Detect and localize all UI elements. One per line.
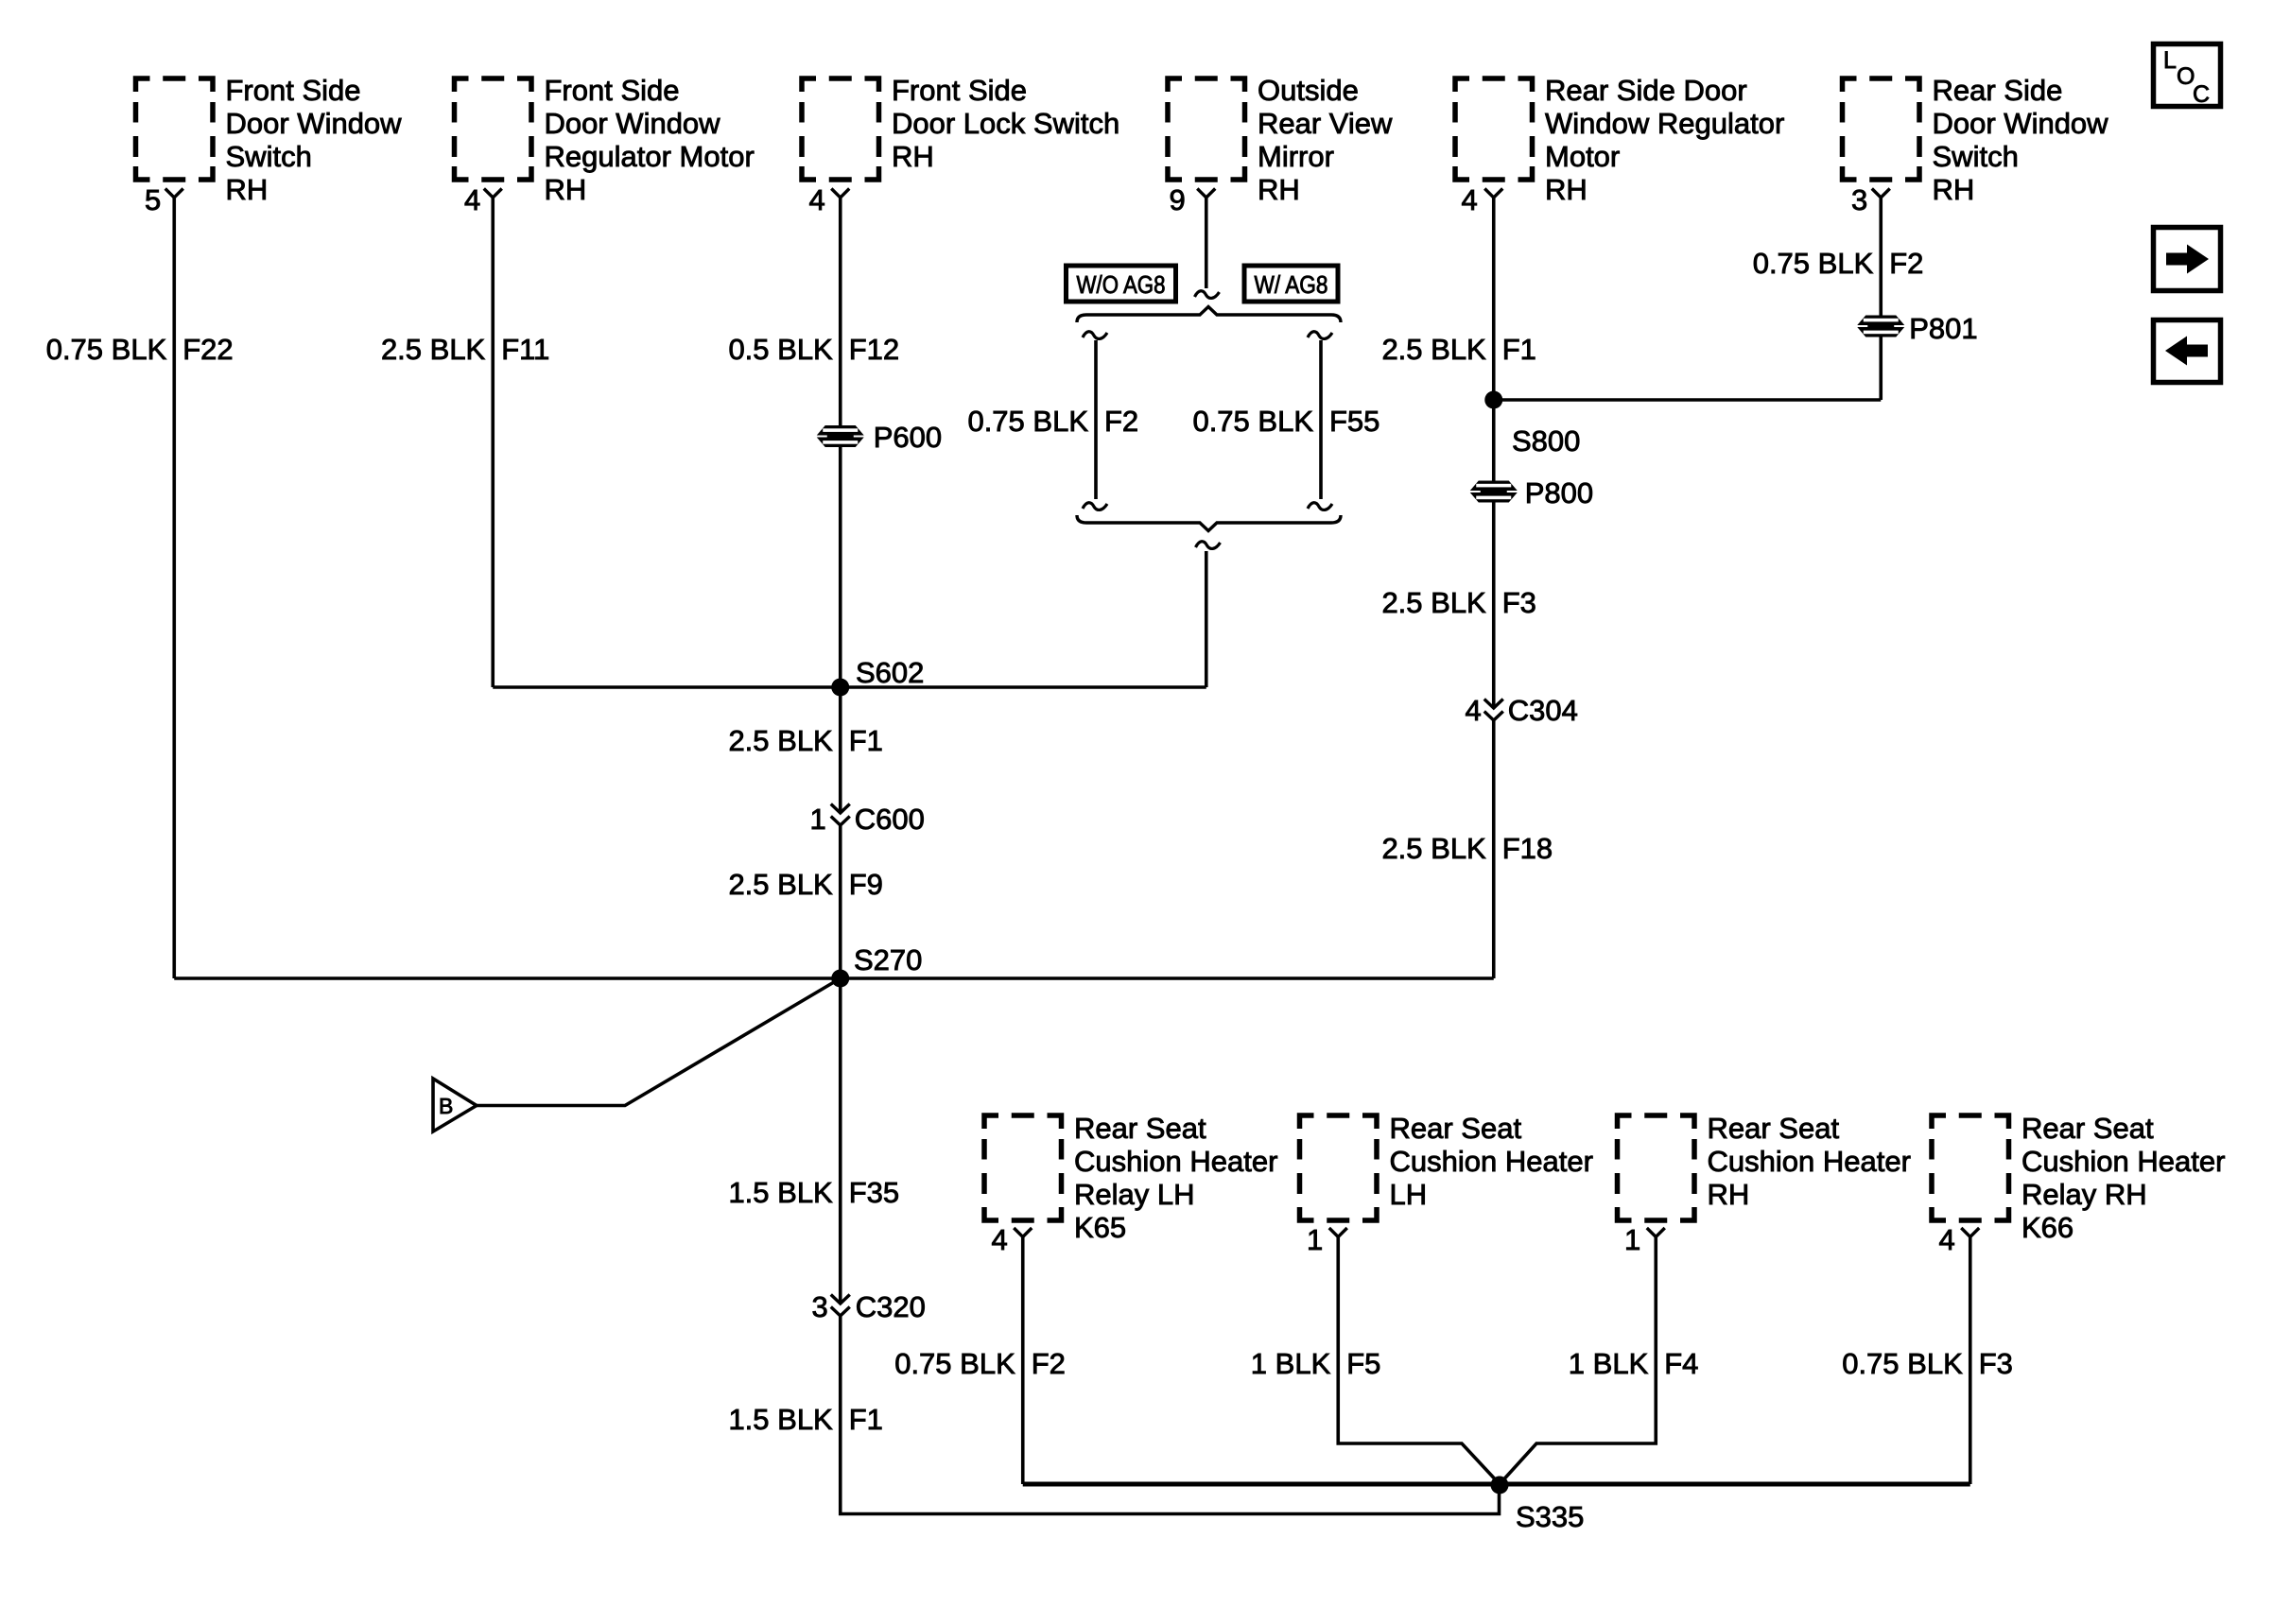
svg-text:RH: RH bbox=[1708, 1178, 1750, 1211]
svg-text:2.5 BLK: 2.5 BLK bbox=[1381, 586, 1486, 619]
svg-text:RH: RH bbox=[1545, 173, 1588, 206]
svg-text:K66: K66 bbox=[2021, 1211, 2073, 1244]
svg-text:Rear Seat: Rear Seat bbox=[2021, 1112, 2154, 1145]
svg-text:RH: RH bbox=[545, 173, 587, 206]
svg-text:1.5 BLK: 1.5 BLK bbox=[728, 1403, 833, 1436]
svg-text:RH: RH bbox=[226, 173, 269, 206]
svg-text:Rear View: Rear View bbox=[1258, 107, 1393, 140]
svg-text:Front Side: Front Side bbox=[226, 74, 361, 107]
svg-text:Cushion Heater: Cushion Heater bbox=[1390, 1145, 1593, 1178]
svg-text:0.75 BLK: 0.75 BLK bbox=[967, 405, 1088, 438]
svg-text:P600: P600 bbox=[874, 421, 942, 454]
svg-text:Door Window: Door Window bbox=[545, 107, 721, 140]
svg-text:0.75 BLK: 0.75 BLK bbox=[1753, 247, 1874, 280]
svg-text:0.5 BLK: 0.5 BLK bbox=[728, 333, 833, 366]
svg-text:0.75 BLK: 0.75 BLK bbox=[894, 1347, 1015, 1380]
svg-text:4: 4 bbox=[992, 1223, 1008, 1256]
svg-text:LH: LH bbox=[1390, 1178, 1428, 1211]
svg-text:P801: P801 bbox=[1909, 312, 1977, 345]
svg-text:Door Window: Door Window bbox=[226, 107, 403, 140]
svg-text:1: 1 bbox=[810, 803, 826, 836]
svg-text:Door Lock Switch: Door Lock Switch bbox=[892, 107, 1119, 140]
svg-text:Regulator Motor: Regulator Motor bbox=[545, 140, 755, 173]
svg-text:S335: S335 bbox=[1516, 1500, 1584, 1533]
svg-text:L: L bbox=[2163, 47, 2177, 74]
svg-text:Rear Seat: Rear Seat bbox=[1708, 1112, 1840, 1145]
svg-text:2.5 BLK: 2.5 BLK bbox=[728, 724, 833, 757]
svg-text:Relay RH: Relay RH bbox=[2021, 1178, 2147, 1211]
svg-text:4: 4 bbox=[1939, 1223, 1955, 1256]
svg-text:2.5 BLK: 2.5 BLK bbox=[728, 868, 833, 901]
svg-text:Outside: Outside bbox=[1258, 74, 1359, 107]
svg-text:4: 4 bbox=[809, 183, 825, 216]
svg-text:Relay LH: Relay LH bbox=[1074, 1178, 1195, 1211]
svg-text:Rear Seat: Rear Seat bbox=[1074, 1112, 1206, 1145]
svg-text:RH: RH bbox=[892, 140, 934, 173]
svg-text:Rear Seat: Rear Seat bbox=[1390, 1112, 1522, 1145]
svg-text:3: 3 bbox=[812, 1290, 828, 1323]
svg-text:1: 1 bbox=[1624, 1223, 1640, 1256]
svg-text:Door Window: Door Window bbox=[1933, 107, 2109, 140]
svg-text:F2: F2 bbox=[1104, 405, 1138, 438]
svg-text:Front Side: Front Side bbox=[545, 74, 680, 107]
svg-text:F3: F3 bbox=[1502, 586, 1536, 619]
svg-text:F35: F35 bbox=[849, 1176, 899, 1209]
svg-text:Cushion Heater: Cushion Heater bbox=[1074, 1145, 1277, 1178]
svg-text:2.5 BLK: 2.5 BLK bbox=[1381, 832, 1486, 865]
svg-text:RH: RH bbox=[1933, 173, 1975, 206]
svg-text:Rear Side Door: Rear Side Door bbox=[1545, 74, 1747, 107]
svg-text:Motor: Motor bbox=[1545, 140, 1620, 173]
svg-text:F4: F4 bbox=[1664, 1347, 1698, 1380]
svg-text:F55: F55 bbox=[1329, 405, 1379, 438]
svg-text:0.75 BLK: 0.75 BLK bbox=[1842, 1347, 1963, 1380]
svg-text:F1: F1 bbox=[849, 724, 883, 757]
svg-text:Window Regulator: Window Regulator bbox=[1545, 107, 1784, 140]
svg-text:F5: F5 bbox=[1346, 1347, 1380, 1380]
svg-text:B: B bbox=[439, 1094, 453, 1118]
svg-text:RH: RH bbox=[1258, 173, 1300, 206]
svg-text:F18: F18 bbox=[1502, 832, 1553, 865]
svg-text:4: 4 bbox=[1466, 694, 1482, 727]
svg-text:2.5 BLK: 2.5 BLK bbox=[381, 333, 486, 366]
svg-text:Front Side: Front Side bbox=[892, 74, 1027, 107]
svg-text:S270: S270 bbox=[854, 943, 922, 976]
svg-text:Cushion Heater: Cushion Heater bbox=[2021, 1145, 2225, 1178]
svg-text:0.75 BLK: 0.75 BLK bbox=[46, 333, 167, 366]
svg-text:S800: S800 bbox=[1512, 424, 1580, 458]
svg-text:1 BLK: 1 BLK bbox=[1569, 1347, 1649, 1380]
svg-text:3: 3 bbox=[1851, 183, 1867, 216]
svg-text:F22: F22 bbox=[182, 333, 233, 366]
svg-text:F11: F11 bbox=[501, 333, 549, 366]
svg-text:K65: K65 bbox=[1074, 1211, 1126, 1244]
svg-text:0.75 BLK: 0.75 BLK bbox=[1192, 405, 1313, 438]
svg-text:S602: S602 bbox=[856, 656, 924, 689]
svg-text:C304: C304 bbox=[1508, 694, 1578, 727]
svg-text:1 BLK: 1 BLK bbox=[1251, 1347, 1331, 1380]
svg-text:1.5 BLK: 1.5 BLK bbox=[728, 1176, 833, 1209]
svg-text:4: 4 bbox=[1462, 183, 1478, 216]
svg-text:F3: F3 bbox=[1979, 1347, 2013, 1380]
svg-text:F2: F2 bbox=[1032, 1347, 1066, 1380]
svg-text:Mirror: Mirror bbox=[1258, 140, 1334, 173]
svg-text:2.5 BLK: 2.5 BLK bbox=[1381, 333, 1486, 366]
svg-text:F1: F1 bbox=[1502, 333, 1536, 366]
svg-text:5: 5 bbox=[145, 183, 161, 216]
svg-text:Switch: Switch bbox=[1933, 140, 2019, 173]
svg-text:Rear Side: Rear Side bbox=[1933, 74, 2063, 107]
svg-text:P800: P800 bbox=[1525, 476, 1593, 510]
svg-text:4: 4 bbox=[464, 183, 480, 216]
svg-text:F2: F2 bbox=[1889, 247, 1923, 280]
svg-text:9: 9 bbox=[1170, 183, 1186, 216]
svg-text:Cushion Heater: Cushion Heater bbox=[1708, 1145, 1911, 1178]
svg-text:F9: F9 bbox=[849, 868, 883, 901]
svg-text:Switch: Switch bbox=[226, 140, 312, 173]
svg-text:F12: F12 bbox=[849, 333, 899, 366]
svg-text:W/ AG8: W/ AG8 bbox=[1255, 270, 1328, 299]
svg-text:F1: F1 bbox=[849, 1403, 883, 1436]
svg-text:C600: C600 bbox=[855, 803, 925, 836]
svg-text:C: C bbox=[2193, 81, 2210, 108]
svg-text:1: 1 bbox=[1307, 1223, 1323, 1256]
svg-text:C320: C320 bbox=[856, 1290, 926, 1323]
svg-text:W/O AG8: W/O AG8 bbox=[1077, 270, 1166, 299]
